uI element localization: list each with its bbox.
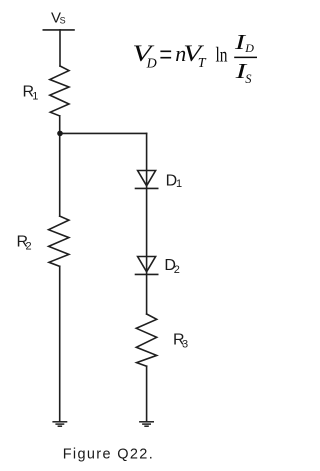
diode D2 bbox=[136, 257, 158, 275]
resistor R1 bbox=[50, 66, 69, 116]
svg-text:2: 2 bbox=[174, 264, 180, 276]
supply Vs bar bbox=[43, 29, 74, 31]
svg-text:D: D bbox=[146, 57, 157, 72]
node A junction dot bbox=[57, 131, 63, 137]
ground left bbox=[52, 422, 67, 426]
svg-text:2: 2 bbox=[26, 241, 32, 253]
wire R2 to ground bbox=[59, 266, 61, 421]
svg-text:D: D bbox=[244, 41, 254, 55]
wire Vs to R1 bbox=[59, 30, 61, 66]
wire node A to right branch bbox=[60, 132, 147, 134]
label R3 bbox=[173, 332, 188, 351]
label D1 bbox=[166, 173, 183, 191]
svg-text:ln: ln bbox=[216, 43, 228, 67]
resistor R2 bbox=[49, 216, 69, 266]
ground right bbox=[139, 422, 154, 426]
svg-text:3: 3 bbox=[182, 339, 188, 351]
svg-text:S: S bbox=[60, 16, 66, 26]
svg-text:T: T bbox=[198, 56, 207, 71]
label R2 bbox=[17, 234, 32, 253]
label R1 bbox=[23, 84, 39, 103]
diode D1 bbox=[136, 171, 158, 189]
svg-text:=: = bbox=[159, 36, 172, 72]
equation VD = nVT ln ID/IS bbox=[132, 30, 257, 86]
label Vs bbox=[51, 9, 66, 26]
svg-text:1: 1 bbox=[32, 90, 38, 102]
wire right branch down through D1 D2 bbox=[146, 133, 148, 314]
svg-text:1: 1 bbox=[176, 178, 182, 190]
svg-text:Figure Q22.: Figure Q22. bbox=[63, 446, 154, 462]
resistor R3 bbox=[136, 314, 156, 366]
wire R1 to R2 through node A bbox=[59, 116, 61, 216]
label D2 bbox=[164, 257, 180, 276]
wire R3 to ground bbox=[146, 366, 148, 421]
svg-text:S: S bbox=[245, 72, 252, 86]
